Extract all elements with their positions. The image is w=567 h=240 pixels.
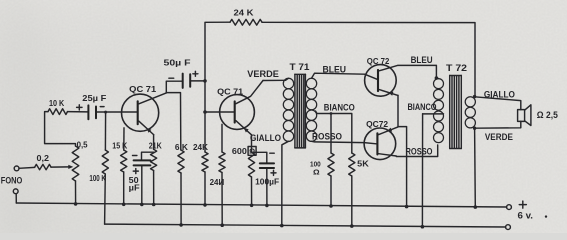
svg-text:50µ F: 50µ F <box>164 58 191 68</box>
svg-text:VERDE: VERDE <box>247 69 278 79</box>
svg-text:5K: 5K <box>357 158 370 168</box>
svg-text:BIANCO: BIANCO <box>324 102 355 112</box>
svg-text:ROSSO: ROSSO <box>312 131 342 141</box>
svg-text:6 K: 6 K <box>175 142 189 152</box>
svg-text:QC 71: QC 71 <box>129 85 157 94</box>
svg-text:100µF: 100µF <box>255 177 279 187</box>
svg-text:10 K: 10 K <box>49 98 65 108</box>
svg-text:BLEU: BLEU <box>323 64 347 74</box>
svg-text:BLEU: BLEU <box>411 55 433 65</box>
svg-text:24K: 24K <box>193 142 209 152</box>
svg-text:QC 72: QC 72 <box>367 57 390 66</box>
svg-text:µF: µF <box>129 183 140 193</box>
svg-text:24И: 24И <box>210 177 225 187</box>
svg-text:Ω: Ω <box>249 149 255 156</box>
svg-text:VERDE: VERDE <box>485 132 513 142</box>
svg-text:0,5: 0,5 <box>77 140 88 150</box>
svg-text:T 72: T 72 <box>446 63 467 74</box>
svg-text:25µ F: 25µ F <box>82 93 106 103</box>
svg-text:BIANCO: BIANCO <box>408 102 437 112</box>
svg-text:ROSSO: ROSSO <box>406 147 433 157</box>
svg-text:600: 600 <box>232 146 247 156</box>
svg-text:Ω 2,5: Ω 2,5 <box>537 110 558 120</box>
svg-text:6 v.: 6 v. <box>518 210 534 220</box>
svg-text:100 K: 100 K <box>89 173 106 183</box>
svg-text:21K: 21K <box>149 141 163 151</box>
svg-text:QC72: QC72 <box>366 120 389 129</box>
svg-text:QC 71: QC 71 <box>217 88 244 97</box>
svg-text:Ω: Ω <box>313 167 320 176</box>
svg-text:0,2: 0,2 <box>37 153 50 163</box>
svg-text:GIALLO: GIALLO <box>250 133 281 143</box>
svg-text:FONO: FONO <box>1 176 23 186</box>
svg-text:15 K: 15 K <box>112 141 128 151</box>
svg-text:24 K: 24 K <box>234 7 255 17</box>
svg-text:T 71: T 71 <box>290 62 311 73</box>
svg-text:GIALLO: GIALLO <box>484 89 515 99</box>
